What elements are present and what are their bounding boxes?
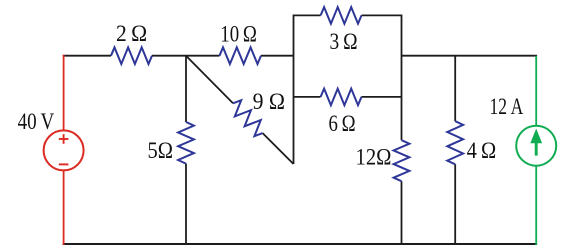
svg-text:10 Ω: 10 Ω — [220, 21, 257, 46]
svg-text:12Ω: 12Ω — [356, 145, 392, 170]
svg-text:5Ω: 5Ω — [147, 138, 173, 163]
svg-text:12 A: 12 A — [490, 94, 524, 119]
svg-text:3 Ω: 3 Ω — [329, 29, 357, 54]
svg-text:2 Ω: 2 Ω — [116, 21, 147, 46]
svg-text:40 V: 40 V — [18, 109, 55, 134]
svg-text:9 Ω: 9 Ω — [253, 89, 285, 114]
svg-text:6 Ω: 6 Ω — [328, 111, 355, 136]
svg-text:4 Ω: 4 Ω — [467, 138, 497, 163]
